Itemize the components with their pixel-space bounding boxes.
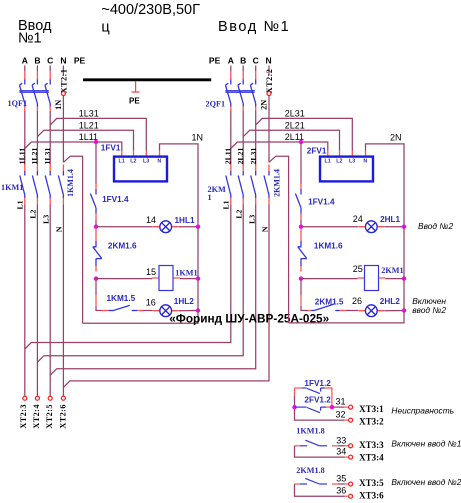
wire load L1 down to XT2:3: [24, 205, 26, 397]
wire right phase C to 2KM1: [255, 111, 257, 165]
wire tie line L3 outputs: [50, 205, 256, 376]
circuit breaker 1QF1 pole C: [45, 71, 50, 111]
wire tie line L2 outputs: [37, 205, 243, 363]
wire control phase down to row 16: [96, 279, 102, 311]
wire right neutral branch to lamp circuit: [269, 156, 289, 323]
wire 33 right: [332, 445, 338, 447]
contact 1KM1.6 (NC): [298, 229, 307, 272]
svg-text:32: 32: [336, 409, 346, 419]
red pin stubs into 2FV1: [328, 151, 366, 157]
contact 2KM1.5 (horizontal NO): [308, 304, 345, 310]
contactor 2KM1 pole L2: [238, 165, 243, 205]
svg-text:1FV1.4: 1FV1.4: [308, 198, 335, 207]
svg-text:2L31: 2L31: [249, 148, 258, 165]
junction node row 24: [299, 225, 303, 229]
wire right phase A input top: [230, 66, 232, 72]
wire net 2L31: [256, 118, 353, 150]
contact 1FV1.4 (right): [295, 184, 301, 227]
junction node on 2L11: [299, 140, 303, 144]
svg-text:15: 15: [146, 267, 156, 277]
wire load N down to XT2:6: [62, 205, 64, 397]
svg-text:1KM1.4: 1KM1.4: [66, 169, 75, 197]
contactor 1KM1 pole N: [58, 165, 63, 205]
wire 33 left: [295, 445, 301, 447]
wire row 15 right: [180, 278, 198, 280]
svg-text:XT3:4: XT3:4: [359, 452, 384, 462]
svg-text:ц: ц: [101, 20, 109, 36]
svg-text:2L21: 2L21: [236, 148, 245, 165]
wire row 26 right: [385, 310, 405, 312]
svg-text:PE: PE: [129, 96, 140, 105]
wire row 25: [301, 278, 358, 280]
svg-text:2HL1: 2HL1: [380, 215, 400, 224]
wire row 25 right: [386, 278, 405, 280]
svg-text:2KM1.5: 2KM1.5: [315, 297, 344, 306]
wire contact 2FV1.2 to node: [326, 406, 332, 408]
junction node rail row 26: [402, 308, 406, 312]
svg-text:1HL2: 1HL2: [174, 297, 194, 306]
voltage relay 1FV1 box: [114, 157, 167, 182]
wire row 24 right: [385, 226, 405, 228]
wire neutral N input to terminal: [62, 66, 64, 76]
wire output 31: [332, 406, 344, 408]
svg-text:1N: 1N: [192, 132, 204, 142]
svg-text:XT2:4: XT2:4: [32, 404, 41, 429]
circuit breaker 1QF1 pole A: [20, 71, 25, 111]
svg-text:C: C: [47, 56, 53, 66]
terminal XT2:5: [48, 396, 52, 400]
svg-text:2L21: 2L21: [285, 120, 305, 130]
svg-text:1L21: 1L21: [30, 148, 39, 165]
contactor 1KM1 pole L1: [20, 165, 25, 205]
svg-text:2FV1.2: 2FV1.2: [304, 395, 331, 404]
wire right neutral N input: [268, 66, 270, 76]
contact 2KM1.8: [300, 478, 327, 484]
svg-text:1HL1: 1HL1: [175, 216, 195, 225]
svg-text:L2: L2: [29, 209, 38, 218]
svg-text:2N: 2N: [390, 132, 402, 142]
wire right phase B input top: [242, 66, 244, 72]
junction node row 14: [94, 225, 98, 229]
svg-text:1KM1.8: 1KM1.8: [296, 427, 324, 436]
svg-text:1L31: 1L31: [79, 108, 99, 118]
svg-text:Ввод №2: Ввод №2: [418, 221, 453, 231]
svg-text:L3: L3: [42, 215, 51, 224]
wire net 2L21: [243, 130, 339, 150]
wire right phase A to 2KM1: [230, 111, 232, 165]
terminal XT2:6: [61, 396, 65, 400]
wire net 1L21: [37, 130, 133, 150]
lamp 2HL2: [358, 305, 384, 317]
svg-text:2HL2: 2HL2: [380, 297, 400, 306]
svg-text:Включен ввод №2: Включен ввод №2: [391, 477, 461, 487]
wire net 2N to rail: [366, 144, 405, 227]
circuit breaker 1QF1 pole B: [32, 71, 37, 111]
svg-text:N: N: [55, 226, 64, 232]
wire phase B from breaker to 1KM1: [36, 111, 38, 165]
voltage relay 2FV1 box: [320, 157, 373, 182]
red pin stubs into 1FV1: [122, 151, 160, 157]
wire net 1L31: [50, 118, 146, 150]
wire right phase C input top: [255, 66, 257, 72]
wire phase B input top: [36, 66, 38, 72]
svg-text:1L21: 1L21: [79, 120, 99, 130]
contact 1KM1.5 (horizontal NO): [102, 305, 144, 310]
svg-text:1FV1.4: 1FV1.4: [102, 195, 129, 204]
svg-text:24: 24: [353, 214, 363, 224]
contactor 2KM1 pole N: [264, 165, 269, 205]
svg-text:1: 1: [208, 193, 212, 202]
wire row 14 right: [179, 226, 198, 228]
svg-text:L1: L1: [222, 200, 231, 209]
wire tie line L1 outputs: [25, 205, 231, 350]
junction node row 15: [94, 276, 98, 280]
relay coil 2KM1: [358, 266, 386, 291]
terminal 33: [349, 444, 353, 448]
terminal 35: [349, 482, 353, 486]
svg-text:1FV1.2: 1FV1.2: [304, 379, 331, 388]
contact 2KM1.6 (NC): [93, 229, 102, 272]
svg-text:Неисправность: Неисправность: [391, 406, 454, 416]
wire row 26 middle: [346, 310, 358, 312]
junction node rail row 24: [402, 225, 406, 229]
svg-text:34: 34: [336, 446, 346, 456]
wire control phase drop from 1L11: [95, 142, 97, 184]
svg-text:N: N: [266, 56, 272, 66]
svg-text:1N: 1N: [54, 100, 63, 110]
wire phase C input top: [49, 66, 51, 72]
svg-text:1KM1.6: 1KM1.6: [314, 241, 343, 250]
wire phase C from breaker to 1KM1: [49, 111, 51, 165]
svg-text:XT3:5: XT3:5: [359, 478, 384, 488]
wire net 1L11: [25, 142, 122, 151]
svg-text:B: B: [34, 56, 40, 66]
lamp 1HL1: [153, 221, 179, 233]
wire row 24: [301, 226, 358, 228]
svg-text:2L31: 2L31: [285, 108, 305, 118]
contact 1FV1.4: [90, 184, 96, 227]
svg-text:N: N: [363, 159, 367, 165]
svg-text:A: A: [22, 56, 28, 66]
lamp 2HL1: [358, 221, 384, 233]
svg-text:XT2:6: XT2:6: [59, 404, 68, 429]
svg-text:XT3:2: XT3:2: [359, 417, 384, 427]
svg-text:33: 33: [336, 435, 346, 445]
junction node rail row 16: [196, 308, 200, 312]
wire row 14: [96, 226, 153, 228]
svg-text:A: A: [228, 56, 234, 66]
contactor 2KM1 pole L3: [251, 165, 256, 205]
contactor 2KM1 pole L1: [226, 165, 231, 205]
svg-text:1L31: 1L31: [43, 148, 52, 165]
svg-text:Включен ввод №1: Включен ввод №1: [391, 438, 461, 448]
svg-text:1L11: 1L11: [17, 148, 26, 165]
wire fault loop left: [295, 396, 345, 420]
wire row 15: [96, 278, 152, 280]
svg-text:PE: PE: [74, 56, 86, 66]
junction node on 1L11: [94, 140, 98, 144]
svg-text:1KM1: 1KM1: [175, 268, 197, 277]
wire neutral 2N below terminal: [268, 96, 270, 163]
junction node rail row 15: [196, 276, 200, 280]
svg-text:L1: L1: [325, 159, 331, 165]
wire load L2 down to XT2:4: [36, 205, 38, 397]
svg-text:L2: L2: [130, 159, 136, 165]
terminal XT2:2: [267, 92, 271, 96]
svg-text:1KM1.5: 1KM1.5: [107, 294, 136, 303]
terminal XT2:4: [35, 396, 39, 400]
junction node rail row 25: [402, 276, 406, 280]
svg-text:N: N: [157, 159, 161, 165]
svg-text:14: 14: [146, 215, 156, 225]
svg-text:16: 16: [146, 298, 156, 308]
svg-text:2N: 2N: [260, 100, 269, 110]
wire row 16 middle: [144, 310, 153, 312]
svg-text:XT3:3: XT3:3: [359, 440, 384, 450]
svg-text:1FV1: 1FV1: [101, 144, 121, 153]
wire phase A from breaker to 1KM1: [24, 111, 26, 165]
circuit breaker 2QF1 linkage bar: [225, 91, 254, 93]
contact 1KM1.8: [300, 440, 327, 446]
junction node row 25: [299, 276, 303, 280]
svg-text:C: C: [253, 56, 259, 66]
svg-text:2KM1.4: 2KM1.4: [272, 169, 281, 197]
terminal 36: [349, 494, 353, 498]
svg-text:N: N: [60, 56, 66, 66]
wire 35 left: [295, 483, 301, 485]
svg-text:B: B: [240, 56, 246, 66]
svg-text:XT2:1: XT2:1: [59, 69, 68, 94]
wire net 1N to voltage relay and rail: [160, 144, 199, 227]
wire net 2L11: [231, 142, 328, 151]
svg-text:L1: L1: [119, 159, 125, 165]
circuit breaker 2QF1 pole B: [238, 71, 243, 111]
circuit breaker 2QF1 pole A: [226, 71, 231, 111]
terminal 32: [349, 418, 353, 422]
svg-text:L2: L2: [235, 209, 244, 218]
relay coil 1KM1: [152, 266, 180, 291]
junction node rail row 14: [196, 225, 200, 229]
svg-text:ввод №2: ввод №2: [412, 305, 446, 315]
svg-text:2KM1: 2KM1: [381, 266, 403, 275]
terminal XT2:1: [61, 92, 65, 96]
svg-text:XT2:2: XT2:2: [265, 69, 274, 94]
wire tie line N outputs: [63, 205, 269, 388]
terminal XT2:3: [23, 396, 27, 400]
wire neutral branch to lamp circuit: [63, 156, 82, 323]
svg-text:XT3:1: XT3:1: [359, 404, 384, 414]
wire row 16 right: [179, 310, 198, 312]
wire 36 loop: [295, 484, 345, 496]
red lead terminal 31: [344, 406, 349, 408]
svg-text:Ввод №1: Ввод №1: [218, 19, 290, 35]
svg-text:XT2:3: XT2:3: [19, 404, 28, 429]
wire fault loop top: [295, 387, 303, 389]
wire rail 1N lower: [83, 227, 198, 324]
circuit breaker 1QF1 linkage bar: [19, 91, 48, 93]
svg-text:XT3:6: XT3:6: [359, 491, 384, 501]
wire load L3 down to XT2:5: [49, 205, 51, 397]
svg-text:2KM1.8: 2KM1.8: [296, 466, 324, 475]
svg-text:26: 26: [352, 296, 362, 306]
ground symbol PE: [129, 81, 140, 105]
contact 1FV1.2: [302, 388, 325, 394]
svg-text:L3: L3: [248, 215, 257, 224]
wire 35 right: [332, 483, 338, 485]
contactor 1KM1 pole L2: [32, 165, 37, 205]
wire fault loop top right: [325, 388, 332, 407]
svg-text:XT2:5: XT2:5: [45, 404, 54, 429]
terminal 31: [349, 405, 353, 409]
svg-text:1QF1: 1QF1: [8, 99, 28, 108]
wire right phase B to 2KM1: [242, 111, 244, 165]
svg-text:2KM1.6: 2KM1.6: [108, 241, 137, 250]
lamp 1HL2: [153, 305, 179, 317]
svg-text:1KM1: 1KM1: [1, 183, 23, 192]
svg-text:L1: L1: [16, 200, 25, 209]
terminal 34: [349, 455, 353, 459]
svg-text:36: 36: [336, 485, 346, 495]
wire phase A input top: [24, 66, 26, 72]
contactor 1KM1 pole L3: [45, 165, 50, 205]
junction node fault left: [292, 405, 296, 409]
svg-text:PE: PE: [209, 56, 221, 66]
circuit breaker 2QF1 pole C: [250, 71, 255, 111]
PE bus bar: [83, 78, 211, 81]
svg-text:2L11: 2L11: [223, 148, 232, 165]
right phase letters PE A B C N: [209, 56, 272, 66]
red lead terminal 32: [344, 419, 349, 421]
svg-text:25: 25: [353, 264, 363, 274]
svg-text:N: N: [261, 226, 270, 232]
left phase letters A B C N PE: [22, 56, 86, 66]
svg-text:~400/230В,50Г: ~400/230В,50Г: [101, 2, 200, 18]
svg-text:2FV1: 2FV1: [307, 147, 327, 156]
contact 2FV1.2: [295, 407, 327, 413]
wire right control phase down to row 26: [301, 279, 308, 311]
svg-text:№1: №1: [18, 31, 42, 47]
svg-text:2QF1: 2QF1: [206, 100, 226, 109]
wire neutral 1N below terminal: [62, 96, 64, 163]
wire right control phase drop: [300, 142, 302, 184]
svg-text:L3: L3: [143, 159, 149, 165]
svg-text:L2: L2: [336, 159, 342, 165]
wire rail 2N lower: [289, 227, 404, 323]
svg-text:L3: L3: [349, 159, 355, 165]
junction node fault right: [330, 405, 334, 409]
svg-text:31: 31: [336, 396, 346, 406]
svg-text:35: 35: [336, 474, 346, 484]
wire 34 loop: [295, 446, 345, 457]
